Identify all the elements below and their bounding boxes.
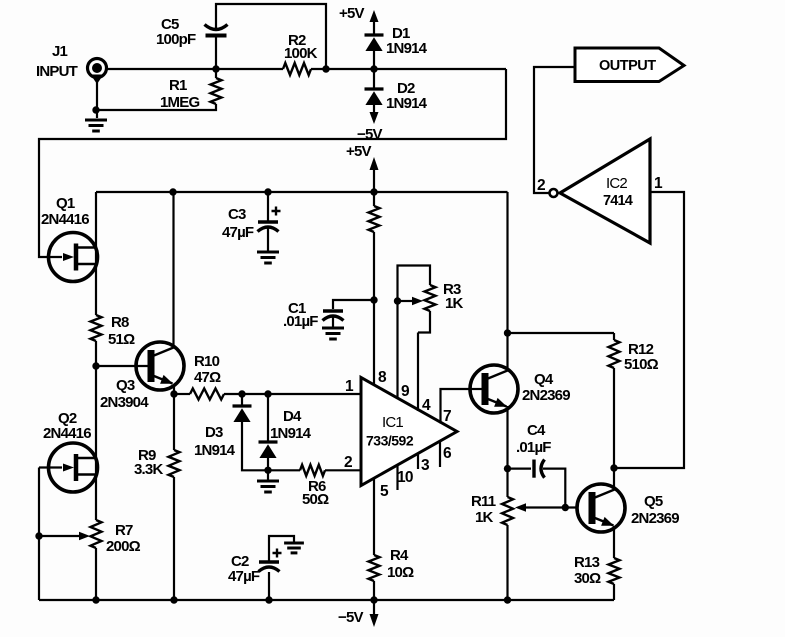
- svg-text:9: 9: [401, 383, 410, 400]
- svg-text:Q5: Q5: [644, 493, 663, 510]
- svg-text:Q1: Q1: [56, 195, 75, 212]
- capacitor C1: [333, 300, 374, 309]
- -5V top supply arrow: [370, 112, 379, 124]
- wire main line right: [311, 68, 506, 70]
- ground right of C2: [284, 542, 304, 545]
- transistor Q1 2N4416: [49, 233, 98, 282]
- svg-text:7: 7: [443, 408, 451, 425]
- node R12 IC2 junction: [610, 464, 617, 471]
- svg-text:D4: D4: [283, 408, 302, 425]
- capacitor C3: [267, 192, 269, 221]
- pin 10 stub: [396, 466, 398, 491]
- wire Q5 emitter to R13: [613, 526, 615, 558]
- svg-text:IC1: IC1: [382, 414, 403, 431]
- transistor Q4 2N2369: [470, 365, 518, 413]
- resistor R11: [502, 497, 513, 525]
- diode D4 1N914: [267, 394, 269, 442]
- resistor R6: [268, 469, 300, 471]
- svg-text:4: 4: [422, 397, 431, 414]
- svg-text:7414: 7414: [603, 193, 633, 209]
- svg-text:510Ω: 510Ω: [624, 356, 659, 373]
- svg-text:3.3K: 3.3K: [134, 461, 163, 478]
- amplifier IC1 733/592: [361, 378, 457, 486]
- svg-text:D3: D3: [205, 424, 223, 441]
- svg-text:Q3: Q3: [116, 377, 135, 394]
- svg-text:R7: R7: [115, 522, 133, 539]
- svg-text:−5V: −5V: [357, 126, 383, 143]
- pin 7 wire: [441, 389, 470, 424]
- capacitor C5: [205, 25, 228, 30]
- svg-text:100pF: 100pF: [156, 31, 196, 48]
- resistor R5 unlabeled: [369, 206, 380, 232]
- svg-text:47µF: 47µF: [228, 568, 260, 585]
- svg-text:1: 1: [654, 175, 663, 192]
- svg-text:2N3904: 2N3904: [100, 394, 149, 411]
- node diode clamp junction: [370, 65, 377, 72]
- diode D2: [365, 87, 384, 90]
- capacitor C4: [508, 468, 532, 470]
- node R11 wiper C4 junction: [562, 504, 569, 511]
- svg-text:2N4416: 2N4416: [41, 211, 89, 228]
- resistor R2: [283, 63, 311, 75]
- wire Q4 emitter down: [506, 406, 508, 497]
- svg-text:R8: R8: [111, 314, 129, 331]
- svg-text:47Ω: 47Ω: [194, 369, 221, 386]
- node Q4 collector R12 junction: [504, 329, 511, 336]
- node Q3 emitter R10 junction: [170, 390, 177, 397]
- svg-text:R13: R13: [574, 554, 600, 571]
- svg-text:R11: R11: [471, 493, 496, 510]
- wire Q4 base from pin7: [469, 388, 485, 390]
- svg-text:1K: 1K: [445, 295, 464, 312]
- svg-text:51Ω: 51Ω: [108, 331, 135, 348]
- wire Q3 collector to rail: [172, 192, 174, 347]
- svg-text:1K: 1K: [475, 509, 494, 526]
- svg-text:733/592: 733/592: [366, 433, 414, 449]
- svg-text:1: 1: [345, 378, 354, 395]
- pin 4 wire: [417, 333, 419, 412]
- transistor Q3 2N3904: [136, 342, 184, 390]
- svg-text:IC2: IC2: [606, 175, 627, 192]
- svg-text:R10: R10: [194, 353, 220, 370]
- svg-text:6: 6: [443, 445, 452, 462]
- node D3 junction: [238, 390, 245, 397]
- node input/C5/R1 junction: [212, 65, 219, 72]
- bottom -5V rail: [39, 599, 614, 601]
- node R7 wiper junction: [35, 532, 42, 539]
- ground below J1: [85, 119, 107, 122]
- resistor R4: [369, 555, 380, 581]
- svg-text:2: 2: [344, 454, 352, 471]
- node rail R11: [504, 596, 511, 603]
- svg-text:R1: R1: [169, 77, 187, 94]
- resistor R10: [174, 393, 190, 395]
- node J1 ground junction: [92, 106, 99, 113]
- output flag: [575, 48, 684, 82]
- svg-text:100K: 100K: [284, 45, 318, 62]
- svg-text:R4: R4: [390, 547, 409, 564]
- svg-text:1MEG: 1MEG: [160, 94, 199, 111]
- wire input feed to Q1 gate: [39, 69, 506, 257]
- node D3 D4 anode junction: [264, 467, 271, 474]
- svg-text:50Ω: 50Ω: [302, 491, 329, 508]
- node rail R8 R7 line: [92, 596, 99, 603]
- wire collector node to R12: [508, 332, 615, 334]
- svg-text:10: 10: [397, 469, 413, 486]
- svg-text:8: 8: [378, 369, 387, 386]
- pin 3 stub: [417, 454, 419, 469]
- wire to Q3 base: [96, 365, 151, 367]
- wire R10 to IC1 pin 1: [224, 393, 361, 395]
- node rail C2: [265, 596, 272, 603]
- resistor R13: [609, 558, 620, 584]
- svg-text:2N2369: 2N2369: [631, 510, 679, 527]
- svg-text:1N914: 1N914: [386, 95, 428, 112]
- ground below C1: [322, 327, 344, 330]
- wire R3 top loop: [398, 266, 431, 302]
- node rail R4: [370, 596, 377, 603]
- svg-text:3: 3: [421, 457, 430, 474]
- plus sign C3: [272, 207, 281, 216]
- resistor R9: [169, 450, 180, 477]
- inverter IC2: [560, 139, 650, 243]
- node rail C3: [264, 188, 271, 195]
- node R2/C5 right junction: [322, 65, 329, 72]
- node D4 junction: [264, 390, 271, 397]
- svg-text:2N4416: 2N4416: [43, 425, 91, 442]
- wire left Q1 drain drop: [95, 192, 97, 315]
- svg-text:2N2369: 2N2369: [522, 387, 570, 404]
- resistor R3: [425, 285, 436, 311]
- node rail R5: [370, 188, 377, 195]
- resistor R8: [91, 315, 102, 341]
- svg-text:INPUT: INPUT: [36, 63, 78, 80]
- node rail R9: [170, 596, 177, 603]
- svg-text:.01µF: .01µF: [516, 439, 551, 456]
- svg-text:47µF: 47µF: [222, 224, 254, 241]
- svg-text:1N914: 1N914: [386, 40, 428, 57]
- svg-text:1N914: 1N914: [270, 425, 312, 442]
- node pin9 R3 junction: [394, 297, 401, 304]
- svg-text:+5V: +5V: [339, 5, 365, 22]
- node C1 junction: [370, 296, 377, 303]
- svg-text:10Ω: 10Ω: [387, 564, 414, 581]
- svg-text:30Ω: 30Ω: [574, 570, 601, 587]
- svg-text:2: 2: [537, 177, 545, 194]
- resistor R12: [613, 333, 615, 340]
- wire IC2 pin1 to Q5 collector node: [614, 192, 684, 468]
- svg-text:−5V: −5V: [338, 609, 364, 626]
- ground below C3: [257, 251, 279, 254]
- connector J1: [88, 59, 107, 78]
- wire main input line left: [106, 68, 283, 70]
- +5V rail: [96, 191, 508, 193]
- node C4 left junction: [504, 465, 511, 472]
- resistor R1: [211, 78, 222, 104]
- capacitor C2: [268, 572, 270, 600]
- svg-text:Q4: Q4: [534, 371, 554, 388]
- resistor R7: [91, 520, 102, 548]
- wiper arrow R11: [526, 506, 577, 508]
- -5V bottom supply: [373, 600, 375, 614]
- svg-text:200Ω: 200Ω: [106, 538, 141, 555]
- wiper arrow R3: [398, 300, 414, 302]
- node R8 Q3 base junction: [92, 362, 99, 369]
- node rail Q3 collector: [169, 188, 176, 195]
- svg-text:1N914: 1N914: [194, 442, 236, 459]
- ground below D4: [257, 480, 279, 483]
- wire Q3 emitter down: [173, 385, 175, 450]
- diode D1: [365, 33, 384, 36]
- wiper arrow R7: [39, 535, 80, 537]
- transistor Q2 2N4416: [49, 443, 98, 492]
- pin 8 wire: [373, 300, 375, 385]
- svg-text:C4: C4: [527, 422, 546, 439]
- pin 6 stub: [439, 442, 441, 467]
- wire J1 to ground: [96, 82, 98, 118]
- plus sign C2: [273, 549, 282, 558]
- wire Q2 gate line: [39, 468, 62, 601]
- svg-text:5: 5: [380, 483, 389, 500]
- diode D3 1N914: [241, 394, 243, 406]
- svg-text:+5V: +5V: [346, 143, 372, 160]
- wire right side vertical: [506, 192, 508, 370]
- pin 9 wire: [396, 301, 398, 399]
- transistor Q5 2N2369: [577, 484, 625, 532]
- svg-text:OUTPUT: OUTPUT: [599, 58, 656, 74]
- svg-text:.01µF: .01µF: [283, 313, 318, 330]
- svg-text:J1: J1: [52, 43, 68, 60]
- pin 5 wire: [373, 479, 375, 556]
- wire OUTPUT to IC2 pin 2: [534, 67, 575, 193]
- svg-text:C3: C3: [228, 206, 246, 223]
